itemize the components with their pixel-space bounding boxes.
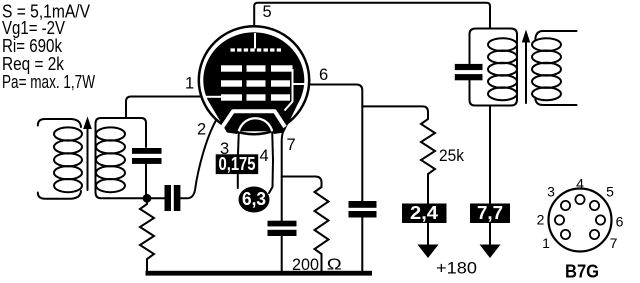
svg-text:1: 1	[185, 75, 194, 93]
svg-text:3: 3	[547, 184, 555, 200]
svg-text:7: 7	[287, 136, 296, 154]
svg-text:2,4: 2,4	[410, 203, 438, 223]
svg-text:Ri= 690k: Ri= 690k	[2, 36, 63, 56]
svg-text:5: 5	[263, 3, 272, 21]
svg-text:5: 5	[606, 184, 614, 200]
svg-text:6,3: 6,3	[242, 189, 266, 209]
svg-text:2: 2	[197, 121, 206, 139]
svg-text:4: 4	[576, 176, 584, 192]
svg-text:B7G: B7G	[565, 262, 599, 282]
svg-text:200: 200	[292, 255, 319, 274]
svg-text:Ω: Ω	[327, 257, 342, 274]
svg-text:2: 2	[537, 212, 545, 228]
svg-text:Req = 2k: Req = 2k	[2, 54, 65, 74]
svg-text:Pa= max. 1,7W: Pa= max. 1,7W	[2, 72, 95, 92]
svg-text:25k: 25k	[439, 146, 464, 165]
svg-text:7: 7	[610, 235, 618, 251]
svg-text:7,7: 7,7	[477, 203, 503, 223]
svg-text:6: 6	[616, 214, 624, 230]
svg-text:3: 3	[220, 140, 229, 158]
svg-text:1: 1	[542, 235, 550, 251]
svg-text:6: 6	[319, 66, 328, 84]
svg-text:+180: +180	[436, 259, 477, 278]
svg-text:4: 4	[260, 147, 269, 165]
svg-text:Vg1= -2V: Vg1= -2V	[2, 18, 65, 38]
